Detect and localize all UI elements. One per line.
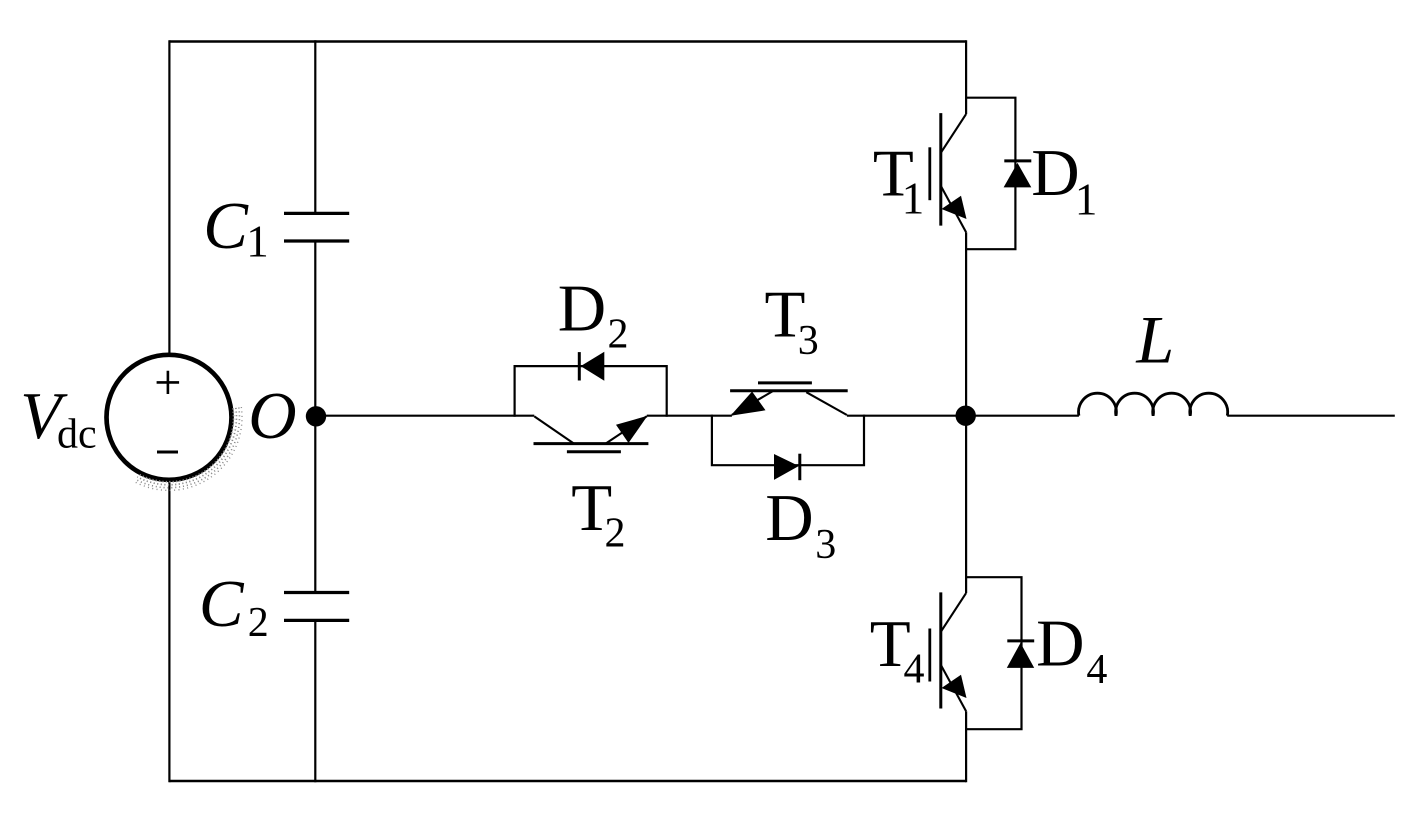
capacitor C1	[284, 213, 349, 241]
wire D2 loop around T2	[515, 366, 667, 417]
voltage source Vdc circle	[107, 355, 232, 480]
svg-text:3: 3	[815, 522, 836, 568]
svg-text:dc: dc	[57, 411, 97, 457]
wire bottom DC bus	[169, 780, 966, 782]
wire T3 to midpoint node	[847, 415, 966, 417]
svg-text:D: D	[558, 271, 606, 345]
wire node O to T2	[315, 415, 534, 417]
svg-text:1: 1	[1075, 175, 1098, 225]
wire D3 loop around T3	[712, 415, 864, 466]
transistor T3	[730, 383, 848, 416]
svg-text:D: D	[1036, 607, 1084, 681]
diode D3	[774, 454, 800, 481]
svg-text:D: D	[1031, 136, 1079, 210]
capacitor C2	[284, 593, 349, 621]
transistor T4	[930, 592, 967, 711]
label T1	[873, 136, 924, 223]
svg-text:1: 1	[902, 173, 925, 223]
svg-text:1: 1	[246, 217, 269, 267]
svg-text:2: 2	[248, 600, 269, 646]
transistor T2	[534, 416, 649, 452]
svg-text:C: C	[203, 189, 249, 263]
wire midpoint to inductor	[966, 415, 1079, 417]
wire inductor to output	[1227, 415, 1395, 417]
inductor L	[1079, 393, 1228, 416]
label D3	[765, 481, 836, 568]
label C2	[199, 567, 269, 646]
transistor T1	[930, 113, 967, 232]
label D1	[1031, 136, 1097, 225]
label D2	[558, 271, 629, 357]
svg-text:L: L	[1135, 302, 1174, 378]
voltage source shadow stipple	[135, 407, 242, 490]
label T2	[571, 471, 625, 557]
label T3	[765, 278, 819, 365]
diode D4	[1007, 641, 1034, 668]
svg-text:O: O	[248, 379, 296, 453]
node midpoint dot	[956, 406, 976, 426]
wire left DC rail	[168, 40, 170, 782]
svg-text:2: 2	[605, 511, 626, 557]
wire D1 branch	[966, 98, 1015, 250]
label D4	[1036, 607, 1107, 694]
voltage source minus sign	[157, 451, 178, 454]
wire right leg vertical	[965, 40, 967, 782]
node O dot	[306, 406, 326, 426]
svg-text:D: D	[765, 481, 813, 555]
svg-text:4: 4	[904, 647, 925, 693]
wire D4 branch	[966, 577, 1021, 729]
wire top DC bus	[169, 40, 966, 42]
svg-text:3: 3	[798, 318, 819, 364]
voltage source plus sign	[157, 371, 180, 394]
diode D2	[579, 352, 604, 381]
wire T2 to T3	[647, 415, 732, 417]
label C1	[203, 189, 268, 267]
svg-text:4: 4	[1086, 647, 1107, 693]
wire capacitor branch vertical	[314, 40, 316, 782]
diode D1	[1004, 161, 1032, 188]
svg-text:C: C	[199, 567, 245, 641]
svg-text:2: 2	[608, 312, 629, 358]
label T4	[870, 607, 925, 693]
